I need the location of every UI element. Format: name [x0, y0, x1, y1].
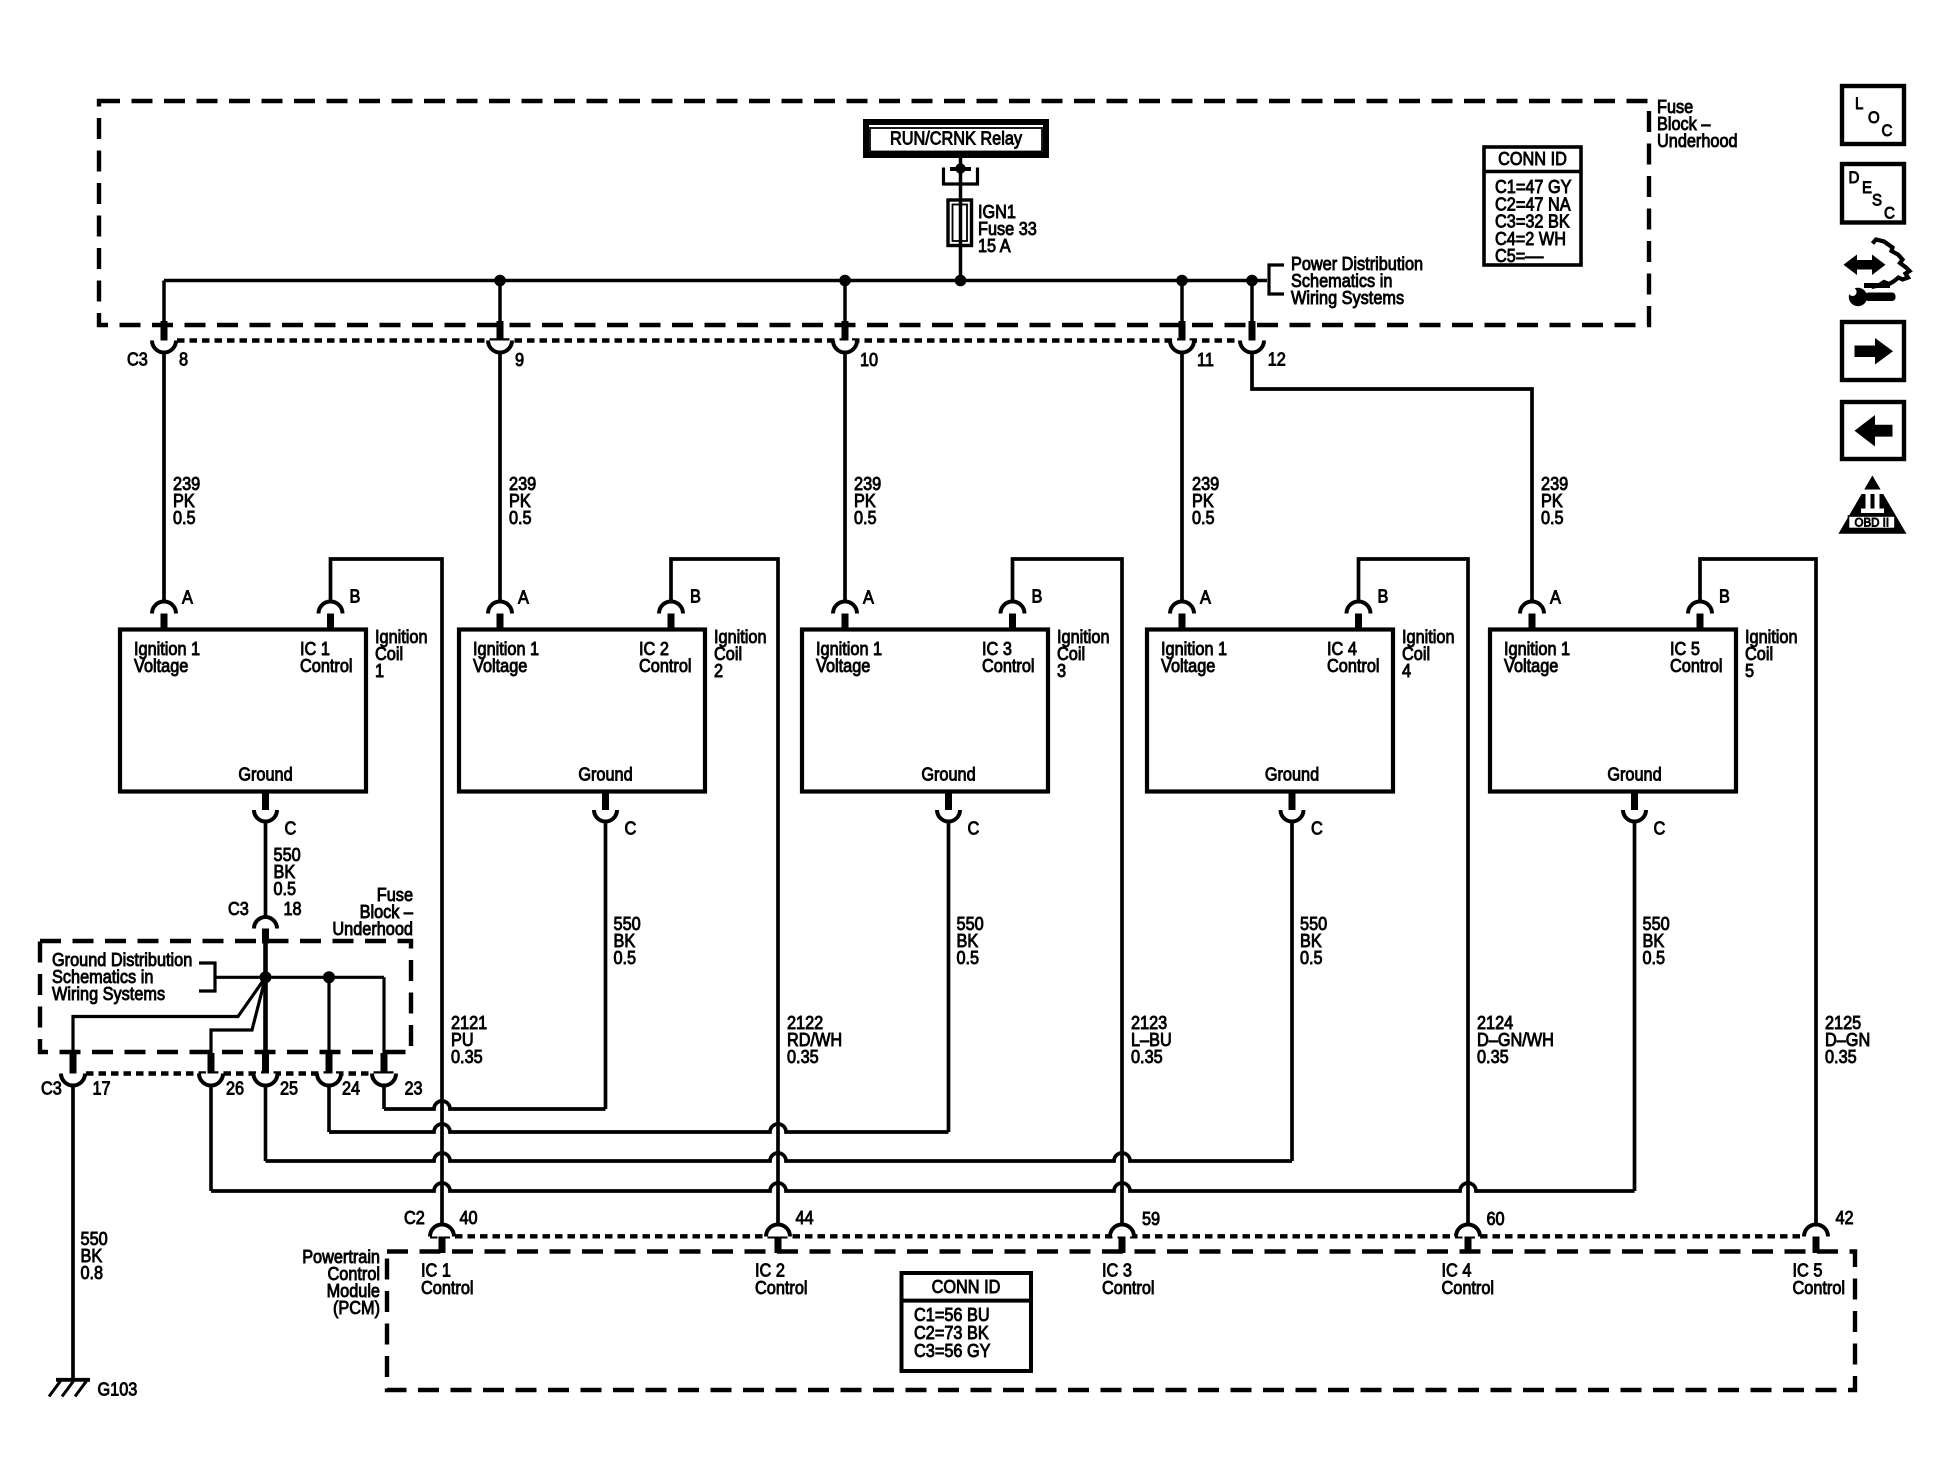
connector C3 dotted line (ground row) — [86, 1071, 396, 1075]
svg-text:0.35: 0.35 — [787, 1046, 819, 1067]
svg-text:C2: C2 — [404, 1207, 425, 1228]
svg-text:40: 40 — [460, 1207, 478, 1228]
wire bracket to junction — [215, 976, 266, 979]
svg-text:11: 11 — [1197, 349, 1214, 370]
svg-text:59: 59 — [1142, 1208, 1160, 1229]
ground link conn24 to coil3 — [327, 1086, 331, 1133]
svg-text:44: 44 — [796, 1207, 814, 1228]
wire junction to conn24/conn23 — [266, 976, 385, 979]
wire conn12 to coil5 A — [1252, 353, 1532, 603]
svg-text:Wiring Systems: Wiring Systems — [1291, 287, 1404, 308]
ground G103 — [56, 1378, 90, 1382]
relay terminal connector — [955, 163, 965, 173]
coil3 pin C — [945, 792, 952, 811]
ignition coil 3 box — [802, 630, 1048, 792]
wire to conn24 — [327, 977, 330, 1053]
connector C2 dotted line (PCM row) — [430, 1234, 1803, 1238]
ignition coil 5 box — [1490, 630, 1736, 792]
fuse IGN1 Fuse 33 15A — [948, 200, 972, 246]
wire junction diagonal to conn17 — [73, 977, 266, 1053]
wire junction to conn25 — [263, 977, 268, 1053]
svg-text:1: 1 — [375, 660, 384, 681]
svg-text:24: 24 — [342, 1078, 360, 1099]
svg-text:O: O — [1868, 108, 1880, 127]
icon back arrow — [1842, 402, 1904, 459]
wire coil2 B to PCM riser — [671, 559, 778, 1225]
svg-text:C3: C3 — [41, 1078, 62, 1099]
svg-text:A: A — [1200, 587, 1212, 608]
svg-text:B: B — [690, 586, 701, 607]
svg-text:Ground: Ground — [1607, 764, 1661, 785]
coil3 pin A — [833, 602, 857, 614]
svg-text:S: S — [1872, 191, 1882, 210]
svg-text:42: 42 — [1836, 1207, 1854, 1228]
connector C3 pin 18 — [254, 917, 277, 928]
svg-text:2: 2 — [714, 660, 723, 681]
svg-text:Control: Control — [1327, 655, 1380, 676]
svg-text:0.5: 0.5 — [614, 947, 637, 968]
svg-text:A: A — [182, 587, 194, 608]
svg-text:CONN ID: CONN ID — [932, 1276, 1001, 1297]
ground link conn25 to coil4 — [264, 1086, 268, 1162]
svg-text:C: C — [1882, 121, 1893, 140]
svg-text:Control: Control — [639, 655, 692, 676]
wire coil4 C to ground link 3 — [1290, 822, 1294, 1162]
svg-text:Control: Control — [755, 1277, 808, 1298]
svg-text:Ground: Ground — [1265, 764, 1319, 785]
ignition coil 2 box — [459, 630, 705, 792]
coil5 pin A — [1520, 602, 1544, 614]
svg-text:5: 5 — [1745, 660, 1754, 681]
icon forward arrow — [1842, 322, 1904, 380]
wire conn8 to coil1 A — [162, 353, 166, 603]
svg-text:25: 25 — [280, 1078, 298, 1099]
svg-text:0.5: 0.5 — [1192, 507, 1215, 528]
wire coil4 B to PCM riser — [1359, 559, 1469, 1225]
wire C3-18 into fuse block — [263, 944, 268, 978]
PCM dashed box — [387, 1252, 1855, 1391]
ignition coil 4 box — [1147, 630, 1393, 792]
svg-text:D: D — [1849, 168, 1860, 187]
svg-text:C3=56 GY: C3=56 GY — [914, 1340, 991, 1361]
svg-text:Voltage: Voltage — [816, 655, 870, 676]
wire relay to fuse to bus — [959, 158, 963, 281]
svg-text:0.5: 0.5 — [173, 507, 196, 528]
wire conn10 to coil3 A — [843, 353, 847, 603]
coil2 pin C — [602, 792, 609, 811]
svg-text:4: 4 — [1402, 660, 1411, 681]
icon wiring repair (arrows, harness, wrench) — [1844, 255, 1886, 276]
svg-text:0.35: 0.35 — [1131, 1046, 1163, 1067]
ground link conn26 to coil5 — [209, 1086, 213, 1192]
svg-text:Control: Control — [300, 655, 353, 676]
svg-text:60: 60 — [1487, 1208, 1505, 1229]
svg-text:Ground: Ground — [921, 764, 975, 785]
wire conn11 to coil4 A — [1180, 353, 1184, 603]
svg-text:Wiring Systems: Wiring Systems — [52, 983, 165, 1004]
C2 connectors 40,44,59,60,42 — [430, 1225, 454, 1237]
coil1 pin B — [319, 602, 343, 614]
coil4 pin C — [1289, 792, 1296, 811]
svg-text:8: 8 — [179, 349, 188, 370]
C3 connectors 8-12 — [161, 321, 168, 341]
svg-text:C5=––: C5=–– — [1495, 245, 1544, 266]
svg-text:Voltage: Voltage — [134, 655, 188, 676]
svg-text:RUN/CRNK Relay: RUN/CRNK Relay — [890, 128, 1023, 149]
fuse block underhood (ground section) dashed box — [40, 941, 411, 1052]
svg-text:C: C — [1884, 203, 1895, 222]
connector C3 dotted line (top row) — [177, 338, 1239, 342]
svg-text:E: E — [1862, 178, 1872, 197]
svg-text:C: C — [1311, 818, 1323, 839]
svg-text:Ground: Ground — [238, 764, 292, 785]
svg-text:18: 18 — [284, 898, 302, 919]
svg-text:L: L — [1855, 94, 1863, 113]
svg-text:Control: Control — [421, 1277, 474, 1298]
svg-text:15 A: 15 A — [978, 235, 1011, 256]
coil4 pin A — [1170, 602, 1194, 614]
coil5 pin C — [1631, 792, 1638, 811]
svg-text:Ground: Ground — [578, 764, 632, 785]
wire conn9 to coil2 A — [498, 353, 502, 603]
icon LOC — [1842, 86, 1904, 144]
C3 connectors 17,26,25,24,23 — [70, 1053, 77, 1074]
svg-text:C: C — [625, 818, 637, 839]
svg-text:A: A — [1550, 587, 1562, 608]
svg-text:Control: Control — [1793, 1277, 1846, 1298]
svg-text:0.5: 0.5 — [1300, 947, 1323, 968]
wire conn17 to G103 — [71, 1086, 75, 1380]
ground distribution bracket — [199, 963, 215, 991]
coil2 pin A — [488, 602, 512, 614]
svg-text:Control: Control — [1670, 655, 1723, 676]
svg-text:(PCM): (PCM) — [333, 1297, 380, 1318]
svg-text:Control: Control — [1442, 1277, 1495, 1298]
svg-text:A: A — [863, 587, 875, 608]
coil5 pin B — [1688, 602, 1712, 614]
svg-text:23: 23 — [405, 1078, 423, 1099]
icon OBD II — [1838, 476, 1906, 534]
wire coil3 B to PCM riser — [1013, 559, 1123, 1225]
wire coil1 B to PCM riser — [331, 559, 443, 1225]
svg-text:B: B — [1719, 586, 1730, 607]
svg-text:9: 9 — [515, 349, 524, 370]
svg-text:OBD II: OBD II — [1855, 518, 1890, 530]
svg-text:0.35: 0.35 — [1825, 1046, 1857, 1067]
coil2 pin B — [659, 602, 683, 614]
coil1 pin C — [262, 792, 269, 811]
svg-text:0.5: 0.5 — [1643, 947, 1666, 968]
svg-text:C: C — [1654, 818, 1666, 839]
wire coil5 B to PCM riser — [1700, 559, 1816, 1225]
svg-text:B: B — [350, 586, 361, 607]
svg-text:0.5: 0.5 — [957, 947, 980, 968]
wire coil5 C to ground link 4 — [1633, 822, 1637, 1192]
svg-text:C3: C3 — [127, 349, 148, 370]
svg-text:Control: Control — [1102, 1277, 1155, 1298]
icon DESC — [1842, 164, 1904, 223]
svg-text:B: B — [1032, 586, 1043, 607]
wire drops to fuse block outputs — [162, 281, 166, 324]
bus wire from fuse — [164, 279, 1267, 283]
ground link conn23 to coil2 — [382, 1086, 386, 1110]
wire junction diagonal to conn26 — [211, 977, 266, 1053]
svg-text:0.5: 0.5 — [854, 507, 877, 528]
svg-text:Voltage: Voltage — [1161, 655, 1215, 676]
power distribution bracket — [1269, 265, 1284, 294]
svg-text:Voltage: Voltage — [473, 655, 527, 676]
svg-text:12: 12 — [1268, 349, 1286, 370]
svg-text:3: 3 — [1057, 660, 1066, 681]
svg-text:0.8: 0.8 — [81, 1262, 104, 1283]
svg-text:Underhood: Underhood — [332, 918, 413, 939]
wire to conn23 — [382, 977, 385, 1053]
coil1 pin A — [152, 602, 176, 614]
wire coil2 C to ground link 1 — [604, 822, 608, 1110]
svg-text:Underhood: Underhood — [1657, 130, 1738, 151]
CONN ID box (fuse block) — [1484, 147, 1581, 265]
CONN ID box (PCM) — [902, 1273, 1032, 1371]
svg-text:0.35: 0.35 — [451, 1046, 483, 1067]
svg-text:Control: Control — [982, 655, 1035, 676]
fuse block underhood (top) dashed box — [99, 101, 1649, 325]
coil4 pin B — [1347, 602, 1371, 614]
junction dots — [260, 971, 272, 983]
svg-text:A: A — [518, 587, 530, 608]
svg-text:G103: G103 — [98, 1379, 138, 1400]
svg-text:C: C — [285, 818, 297, 839]
svg-text:10: 10 — [860, 349, 878, 370]
bus junction dots — [494, 275, 506, 287]
svg-text:CONN ID: CONN ID — [1498, 148, 1567, 169]
svg-text:0.35: 0.35 — [1477, 1046, 1509, 1067]
coil3 pin B — [1001, 602, 1025, 614]
svg-text:C: C — [968, 818, 980, 839]
ignition coil 1 box — [120, 630, 366, 792]
svg-text:26: 26 — [226, 1078, 244, 1099]
svg-text:17: 17 — [93, 1078, 111, 1099]
svg-text:C3: C3 — [228, 898, 249, 919]
svg-text:B: B — [1378, 586, 1389, 607]
svg-text:0.5: 0.5 — [274, 878, 297, 899]
svg-text:0.5: 0.5 — [509, 507, 532, 528]
wire coil1 C to C3-18 — [264, 822, 268, 918]
RUN/CRNK relay box — [866, 122, 1046, 155]
svg-text:Voltage: Voltage — [1504, 655, 1558, 676]
svg-text:0.5: 0.5 — [1541, 507, 1564, 528]
wire coil3 C to ground link 2 — [947, 822, 951, 1133]
